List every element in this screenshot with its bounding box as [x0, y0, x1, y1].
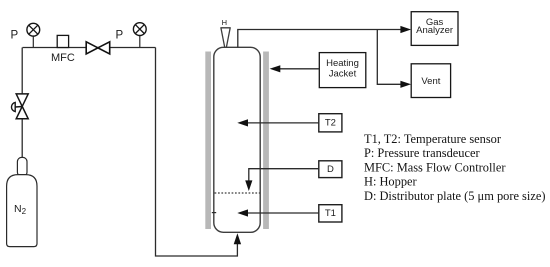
svg-text:Vent: Vent — [421, 76, 440, 87]
wire branch to vent — [377, 30, 400, 85]
reactor column — [214, 47, 260, 232]
svg-text:D: Distributor plate (5 μm por: D: Distributor plate (5 μm pore size) — [364, 189, 545, 203]
box Gas Analyzer — [411, 12, 458, 46]
wire heating jacket to reactor — [279, 68, 319, 70]
box D — [319, 161, 342, 178]
feed inlet arrowhead into reactor bottom — [234, 233, 241, 244]
wire reactor top to gas analyzer — [238, 30, 401, 48]
svg-text:P: P — [116, 29, 124, 41]
box T2 — [319, 114, 342, 132]
arrowhead T2 into reactor — [237, 119, 248, 126]
wire main supply line horizontal — [23, 47, 156, 49]
N2 cylinder — [7, 157, 37, 246]
arrowhead D down to plate — [245, 180, 252, 191]
svg-text:Heating: Heating — [326, 58, 359, 69]
svg-text:MFC: Mass Flow Controller: MFC: Mass Flow Controller — [364, 160, 506, 174]
svg-text:Jacket: Jacket — [329, 68, 357, 79]
svg-text:H: H — [222, 18, 227, 27]
pressure gauge P1 — [27, 23, 40, 47]
svg-text:D: D — [327, 164, 334, 175]
box Vent — [411, 64, 450, 98]
svg-text:Analyzer: Analyzer — [416, 25, 453, 36]
arrowhead T1 into reactor — [237, 209, 248, 216]
arrowhead heating jacket to reactor wall — [270, 65, 281, 72]
hopper H funnel — [221, 28, 230, 48]
svg-text:H: Hopper: H: Hopper — [364, 175, 418, 189]
arrowhead into gas analyzer — [400, 26, 411, 33]
heating jacket strip left — [205, 52, 211, 230]
svg-text:P: P — [11, 29, 19, 41]
distributor plate dotted line — [215, 192, 260, 194]
arrowhead into vent — [400, 81, 411, 88]
wire valve V1 to cylinder neck — [21, 119, 23, 158]
heating jacket strip right — [263, 52, 269, 230]
valve V1 cylinder regulator valve — [11, 94, 28, 119]
MFC mass flow controller — [51, 35, 75, 63]
svg-text:T1: T1 — [325, 208, 336, 219]
box Heating Jacket — [319, 53, 366, 88]
tick on reactor left wall at T1 level — [212, 212, 216, 214]
valve V2 — [86, 42, 110, 54]
pressure gauge P2 — [133, 23, 146, 48]
box T1 — [319, 205, 342, 222]
legend text block — [364, 132, 545, 203]
wire T2 sensor line — [247, 122, 319, 124]
wire D to distributor plate — [249, 169, 319, 181]
svg-text:P: Pressure transdeucer: P: Pressure transdeucer — [364, 146, 480, 160]
wire T1 sensor line — [247, 212, 319, 214]
svg-text:T2: T2 — [325, 118, 336, 129]
svg-text:MFC: MFC — [51, 52, 75, 64]
wire right vertical drop and bottom run to reactor inlet — [156, 48, 238, 257]
wire left vertical from main line down to valve V1 — [21, 48, 23, 95]
svg-text:T1, T2: Temperature sensor: T1, T2: Temperature sensor — [364, 132, 502, 146]
